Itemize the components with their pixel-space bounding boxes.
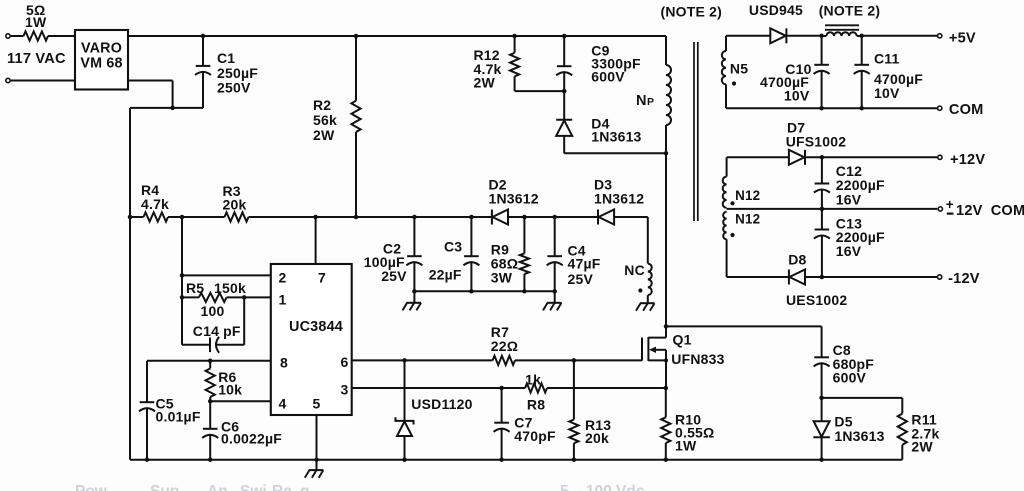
wire pin 6 output [352,358,493,363]
resistor R9 68-ohm 3W [491,217,529,291]
wire 12V center tap [727,208,938,210]
label D7 [787,120,805,136]
wire feedback node vertical [181,217,183,345]
terminal +12V [938,152,986,168]
svg-text:1N3612: 1N3612 [594,190,644,206]
wire rail to diodes [313,215,492,220]
svg-text:Re: Re [272,483,292,491]
wire to +5V terminal [862,35,937,37]
svg-text:56k: 56k [313,112,337,128]
svg-text:16V: 16V [836,192,862,208]
transistor Q1 UFN833 [642,326,725,388]
wire drain to C8 [666,325,822,327]
terminal -12V [937,271,979,287]
transformer core [694,42,698,221]
svg-text:12V: 12V [956,203,983,219]
svg-text:N12: N12 [735,188,760,203]
label note 2 left [661,3,723,19]
label 117 VAC [7,51,66,67]
wire 5V return [726,107,937,109]
input terminal bottom [6,78,75,82]
diode D5 1N3613 [813,398,884,460]
capacitor C1 250uF 250V [195,34,258,108]
resistor R12 4.7k 2W [474,34,565,91]
wire snubber node [822,397,903,399]
svg-text:20k: 20k [585,430,609,446]
diode D7 UFS1002 [727,150,937,165]
svg-text:47µF: 47µF [568,255,601,271]
svg-text:(NOTE 2): (NOTE 2) [819,3,881,19]
winding N12 lower [723,212,760,277]
phase dot N12 lower [730,233,734,237]
wire pin7 to rail [315,217,317,264]
ground below C2 [403,291,422,310]
svg-text:20k: 20k [223,197,247,213]
pin 4 label [279,395,287,411]
svg-text:2W: 2W [474,74,496,90]
capacitor C11 4700uF 10V [854,36,924,111]
ground below NC [636,303,655,311]
pin 8 label [280,355,288,371]
svg-text:C14 pF: C14 pF [193,323,241,339]
label USD945 [749,2,803,18]
svg-text:Sup: Sup [150,483,179,491]
svg-text:C1: C1 [217,50,235,66]
svg-text:1: 1 [279,291,287,307]
svg-text:UC3844: UC3844 [289,319,343,335]
svg-text:Q1: Q1 [673,332,692,348]
diode D4 1N3613 [556,91,641,153]
svg-text:0.01µF: 0.01µF [156,409,201,425]
svg-text:1N3612: 1N3612 [489,190,539,206]
svg-text:Pow: Pow [75,483,108,491]
node DC bus left [128,215,133,220]
wire primary to Q1 drain [665,153,667,326]
svg-text:1k: 1k [525,371,541,387]
resistor R3 20k [182,183,316,221]
svg-text:2W: 2W [911,439,933,455]
svg-text:+: + [946,197,954,212]
svg-text:1N3613: 1N3613 [834,428,884,444]
winding N5 [722,36,748,108]
svg-text:22µF: 22µF [429,267,462,283]
svg-text:N: N [636,93,647,109]
capacitor C6 0.0022uF [202,401,282,459]
resistor R7 22-ohm [491,324,642,365]
resistor R2 56k 2W [313,34,361,220]
svg-text:22Ω: 22Ω [491,338,518,354]
svg-text:600V: 600V [833,370,867,386]
svg-text:1W: 1W [675,437,697,453]
winding N12 upper [723,157,761,208]
svg-text:UFS1002: UFS1002 [786,133,847,149]
pin 3 label [341,381,349,397]
resistor R10 0.55-ohm 1W [661,388,714,460]
capacitor C14 100pF [182,297,244,352]
terminal +5V [938,31,976,47]
diode D3 1N3612 [594,177,648,225]
svg-text:8: 8 [280,355,288,371]
resistor R11 2.7k 2W [898,398,940,460]
pin 5 label [313,395,321,411]
svg-text:NC: NC [624,262,645,278]
pin 1 label [279,291,287,307]
resistor R5 150k [180,280,247,319]
svg-text:250V: 250V [217,80,251,96]
phase dot N5 [732,81,736,85]
pin 7 label [318,269,326,285]
svg-text:4: 4 [279,395,287,411]
svg-text:7: 7 [318,269,326,285]
svg-text:0.0022µF: 0.0022µF [221,430,282,446]
svg-text:N5: N5 [730,60,748,76]
svg-text:5 – 100 Vdc: 5 – 100 Vdc [560,483,645,491]
svg-text:-12V: -12V [948,271,980,287]
svg-text:D5: D5 [834,414,852,430]
node Q1 source [664,386,669,391]
ground at pin 5 [305,457,324,477]
inductor output filter choke [822,25,864,38]
svg-text:N12: N12 [735,212,760,227]
svg-text:R8: R8 [527,397,545,413]
wire top rail [128,35,666,37]
svg-text:P: P [647,96,654,108]
svg-text:5: 5 [313,395,321,411]
svg-text:150k: 150k [214,280,246,296]
transformer primary winding NP [636,36,671,153]
svg-text:16V: 16V [836,243,862,259]
svg-text:2W: 2W [313,127,335,143]
capacitor C2 100uF 25V [364,217,423,291]
svg-text:UES1002: UES1002 [786,292,847,308]
svg-text:COM: COM [949,102,984,118]
capacitor C10 4700uF 10V [760,36,830,111]
wire pin 8 [147,360,271,362]
pin 6 label [341,354,349,370]
svg-text:USD945: USD945 [749,2,803,18]
capacitor C3 22uF [429,217,480,291]
wire to C4 [524,215,598,220]
capacitor C13 2200uF 16V [814,209,885,279]
svg-text:C11: C11 [874,51,900,67]
label note 2 right [819,3,881,19]
capacitor C8 680pF 600V [814,326,875,400]
wire cap bank bottom [412,289,557,294]
svg-text:10k: 10k [218,381,242,397]
svg-text:2200µF: 2200µF [836,177,885,193]
svg-text:R5: R5 [186,280,204,296]
node Q1 drain [664,324,669,329]
svg-text:R2: R2 [313,97,331,113]
svg-text:COM: COM [991,203,1024,219]
svg-text:4.7k: 4.7k [141,196,169,212]
resistor R8 1k [525,371,666,412]
svg-text:VM 68: VM 68 [80,55,122,71]
svg-text:10V: 10V [784,87,810,103]
phase dot NC [638,288,642,292]
terminal COM [938,102,984,118]
svg-text:USD1120: USD1120 [411,396,472,412]
svg-text:1N3613: 1N3613 [591,129,641,145]
svg-text:+12V: +12V [950,152,985,168]
wire bottom ground rail [130,217,902,462]
svg-text:25V: 25V [381,268,407,284]
wire D4 to primary bottom [564,151,668,156]
wire pin 1 [244,296,271,298]
input terminal top (117 VAC line) [6,34,24,38]
svg-text:Swi: Swi [240,483,267,491]
svg-text:An: An [207,483,228,491]
label UFS1002 [786,133,847,149]
capacitor C7 470pF [494,388,556,460]
svg-text:100: 100 [201,303,225,319]
svg-text:6: 6 [341,354,349,370]
svg-text:C3: C3 [444,239,462,255]
svg-text:25V: 25V [568,271,594,287]
svg-text:VARO: VARO [81,40,122,56]
terminal 12V COM [938,197,1024,219]
svg-text:D8: D8 [788,252,806,268]
ground below C4 [543,291,562,310]
wire VARO negative output jog [128,81,203,218]
capacitor C9 3300pF 600V [556,34,641,94]
capacitor C4 47uF 25V [547,217,601,291]
svg-text:600V: 600V [591,69,625,85]
wire pin 5 to ground rail [316,415,318,460]
capacitor C12 2200uF 16V [814,157,885,211]
resistor R13 20k [569,358,611,460]
resistor R4 4.7k [130,182,184,222]
svg-text:+5V: +5V [949,31,976,47]
svg-text:3: 3 [341,381,349,397]
winding NC [624,217,651,303]
svg-text:3W: 3W [491,269,513,285]
diode USD945 [726,28,824,43]
diode USD1120 [396,360,473,459]
svg-text:470pF: 470pF [514,428,556,444]
svg-text:(NOTE 2): (NOTE 2) [661,3,723,19]
svg-text:117 VAC: 117 VAC [7,51,66,67]
diode D2 1N3612 [489,177,539,225]
resistor 5-ohm 1W input [24,2,76,40]
wire pin 3 current sense [352,386,525,391]
bridge rectifier VARO VM 68 [75,30,128,90]
wire pin 4 [210,400,271,402]
capacitor C5 0.01uF [139,361,201,460]
svg-text:g: g [300,483,309,491]
svg-text:10V: 10V [874,85,900,101]
wire pin 2 [180,273,271,278]
pin 2 label [279,269,287,285]
caption fragment [75,483,645,491]
resistor R6 10k [206,359,243,404]
svg-text:2: 2 [279,269,287,285]
IC UC3844 PWM controller [271,264,352,415]
diode D8 UES1002 [727,252,937,308]
svg-text:1W: 1W [25,14,47,30]
phase dot N12 upper [730,201,734,205]
svg-text:UFN833: UFN833 [671,351,724,367]
